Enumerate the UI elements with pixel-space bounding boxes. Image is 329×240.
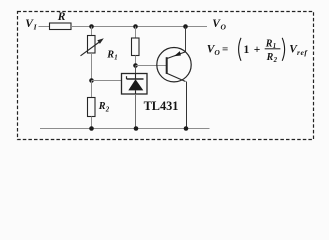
svg-text:TL431: TL431 (144, 99, 179, 113)
junction node B (divider tap) (89, 78, 94, 83)
wire node K-top down to bias resistor (135, 27, 137, 39)
wire base (136, 65, 167, 67)
junction node K (cathode/base) (133, 63, 138, 68)
wire collector vertical (186, 82, 188, 129)
junction R2-ground (89, 126, 94, 131)
junction node A (89, 24, 94, 29)
wire TL431 anode to ground (135, 94, 137, 129)
wire R2 to ground rail (91, 117, 93, 129)
dashed border frame (18, 12, 314, 140)
svg-text:O: O (214, 48, 220, 57)
wire R1 to node B (91, 53, 93, 81)
potentiometer R1 (81, 36, 118, 62)
svg-text:R: R (57, 11, 66, 23)
node VI label (25, 18, 37, 31)
bias resistor (132, 38, 140, 56)
wire node B to TL431 ref (92, 80, 122, 82)
junction anode-ground (134, 126, 139, 131)
formula VO = (1 + R1/R2) Vref (207, 38, 309, 64)
wire emitter vertical (185, 27, 187, 53)
wire node K to TL431 cathode (135, 66, 137, 74)
svg-text:R: R (106, 49, 114, 60)
svg-text:2: 2 (273, 57, 278, 64)
wire bias resistor to node K (135, 56, 137, 66)
svg-text:1: 1 (244, 44, 250, 56)
svg-text:R: R (98, 101, 106, 112)
resistor R (50, 11, 72, 30)
resistor R2 (88, 98, 110, 117)
wire node A down to R1 (91, 27, 93, 36)
svg-text:2: 2 (105, 106, 110, 113)
svg-text:R: R (265, 38, 273, 49)
wire top rail (71, 26, 207, 28)
junction node K-top (133, 24, 138, 29)
svg-text:O: O (221, 23, 227, 32)
svg-text:R: R (266, 52, 274, 63)
junction collector-ground (184, 126, 189, 131)
junction node emitter-top (183, 24, 188, 29)
wire node B down to R2 (91, 81, 93, 98)
svg-text:1: 1 (114, 55, 117, 62)
transistor Q1 (157, 47, 191, 81)
svg-text:=: = (222, 43, 228, 55)
svg-text:ref: ref (297, 48, 308, 57)
ground rail wire (40, 128, 210, 130)
label VO output (212, 18, 226, 31)
TL431 U1 (122, 74, 179, 114)
svg-text:+: + (254, 44, 261, 56)
wire VI to R (39, 26, 50, 28)
